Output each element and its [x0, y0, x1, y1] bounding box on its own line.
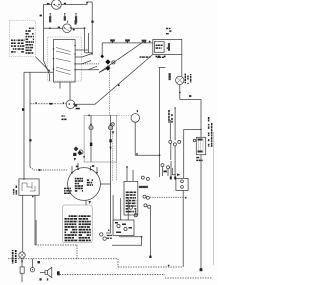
- dashed vertical center: [109, 66, 111, 115]
- wire timer contact out 4: [75, 69, 99, 71]
- wire down from node: [112, 237, 142, 246]
- wire below cycling thermostat: [134, 122, 136, 155]
- label 1M: [64, 17, 66, 19]
- start switch terminal 1: [181, 180, 184, 183]
- wires below terminals: [163, 143, 176, 180]
- wire from switch cluster down: [149, 208, 151, 257]
- node near rings: [108, 230, 110, 232]
- wires center-left pair: [113, 126, 117, 181]
- solenoid L2 stub: [110, 115, 112, 125]
- main bus top: [102, 42, 153, 44]
- connector ring 2: [103, 237, 106, 240]
- label under speaker: [40, 279, 42, 281]
- node in right box: [167, 47, 169, 49]
- node at diagonal joint: [48, 70, 50, 72]
- dashed bottom line D: [57, 273, 165, 275]
- speaker symbol: [45, 267, 52, 277]
- label 5M: [49, 17, 51, 19]
- wire hi-limit to start box: [172, 168, 176, 175]
- label door switch: [12, 250, 17, 264]
- label in fuse box: [156, 45, 163, 49]
- label near regulating thermostat: [164, 171, 167, 173]
- dashed bottom line A: [35, 244, 77, 246]
- label under right box: [156, 56, 166, 58]
- wire door box right down: [34, 195, 36, 245]
- wire right horizontal: [180, 94, 201, 100]
- buzzer circle: [30, 268, 34, 272]
- node on bus left: [49, 27, 51, 29]
- switch lever 2: [82, 61, 91, 64]
- label 6M: [76, 108, 80, 110]
- tiny text near rings: [107, 235, 112, 239]
- motor terminal 2: [77, 168, 79, 170]
- stub label blobs: [76, 166, 78, 168]
- wire to speaker: [40, 272, 45, 274]
- junction diamond 2: [105, 65, 110, 70]
- solenoid L2: [108, 126, 112, 130]
- label FAN: [169, 74, 171, 76]
- node on wire: [35, 102, 37, 104]
- wire left horizontal bus: [24, 71, 54, 73]
- junction mark on drop: [100, 55, 104, 59]
- wire label blob on left vertical: [40, 15, 42, 17]
- thermostat terminal circle 3: [178, 140, 181, 143]
- label blob on wire: [49, 103, 52, 105]
- switch lever 1: [82, 54, 92, 58]
- figure label blob: [57, 271, 60, 275]
- motor switch circle f: [148, 205, 151, 208]
- dark cluster component 3: [73, 153, 76, 156]
- connector ring 1: [100, 233, 103, 236]
- arrow below: [112, 131, 115, 134]
- node timer box right 3: [74, 63, 76, 65]
- bottom blob on heater wire: [200, 268, 203, 271]
- wire fan to node: [179, 85, 181, 95]
- cycling thermostat circle: [131, 114, 140, 123]
- wire below start box: [182, 191, 184, 268]
- wire right vertical drop: [200, 100, 202, 138]
- wire motor bottom: [85, 200, 87, 205]
- motor internal text: [75, 178, 93, 192]
- wire to SW1 left: [44, 3, 52, 5]
- dashed wire to motor: [30, 167, 68, 170]
- switch contact row 1: [56, 48, 71, 55]
- wire resistor down: [21, 273, 23, 282]
- text above right box: [166, 28, 172, 35]
- door switch circle: [19, 252, 25, 258]
- node timer inner mid: [53, 58, 55, 60]
- inner fuse box: [154, 42, 164, 53]
- switch contact row 3: [56, 67, 71, 75]
- wire console horizontal: [135, 154, 159, 156]
- start switch circle SW1: [52, 0, 62, 9]
- regulating thermostat circle 2: [167, 166, 170, 169]
- node bus 2: [127, 41, 129, 43]
- wire timer contact out 3: [75, 63, 82, 65]
- tick above SW2: [67, 21, 69, 23]
- timer switch inner box: [54, 40, 76, 83]
- small switch circle in console: [79, 150, 83, 154]
- node before circle: [63, 102, 65, 104]
- circled terminal: [112, 61, 115, 64]
- dashed bottom line B: [8, 258, 118, 260]
- node on bus right: [84, 27, 86, 29]
- node console left: [136, 153, 138, 155]
- dashed wire mid: [78, 63, 99, 65]
- hi-limit column wires: [170, 108, 175, 140]
- wire timer contact out 2: [75, 56, 82, 58]
- node on console top: [88, 114, 90, 116]
- legend box (wiring code): [9, 21, 35, 57]
- switch lever 3: [88, 66, 97, 70]
- junction diamond 1: [105, 59, 110, 64]
- motor stub wires: [72, 163, 97, 173]
- terminal block box (right top): [153, 39, 182, 54]
- thermostat terminal circle 1: [169, 140, 172, 143]
- stub below switch box: [59, 82, 61, 89]
- label blob on right vertical: [91, 21, 93, 23]
- motor switch circle b: [146, 177, 149, 180]
- solenoid L1: [89, 126, 93, 130]
- centrifugal switch circle: [66, 100, 75, 109]
- arrow on L2 wire: [109, 147, 111, 150]
- resistor below door switch: [20, 267, 24, 273]
- arrow below door circle: [21, 261, 23, 264]
- node at relay tap: [200, 129, 202, 131]
- terminal strip text: [126, 192, 137, 213]
- wire joining pair: [85, 52, 93, 54]
- node on buzzer wire: [38, 261, 40, 263]
- diagonal wire D1 to heater box: [99, 41, 145, 73]
- rings inside junction box: [117, 224, 120, 227]
- timer switch outer box: [48, 37, 82, 81]
- dashed wire to start area: [150, 196, 183, 198]
- node on left vertical 2: [29, 139, 31, 141]
- dashed top extension to thermostat: [116, 115, 131, 117]
- wire motor right side: [100, 183, 110, 185]
- node timer box right 4: [74, 69, 76, 71]
- wire left vertical of top box: [43, 4, 45, 60]
- dashed step: [76, 245, 78, 259]
- wires into junction box: [113, 195, 136, 220]
- arrow below cluster: [74, 158, 76, 161]
- legend text column 1: [11, 40, 17, 53]
- dark cluster component 4: [75, 148, 77, 150]
- tick mark 5M: [49, 14, 51, 17]
- text top of console section: [140, 56, 151, 57]
- wire label blob bus left: [58, 27, 60, 29]
- label left of door box: [13, 186, 17, 195]
- wire below solenoid L1: [90, 130, 92, 162]
- wire down to start box: [183, 129, 185, 178]
- node bus 3: [144, 42, 146, 44]
- heater top terminal: [193, 139, 195, 141]
- heater internal: [198, 139, 203, 152]
- wire door switch to resistor: [21, 258, 23, 267]
- wire labels at column bottom: [170, 177, 172, 180]
- label left of motor: [64, 188, 72, 194]
- wire below junction box: [120, 236, 142, 237]
- small junction box bottom center: [113, 220, 134, 236]
- node above connector box: [89, 201, 91, 204]
- node on left vertical 1: [22, 108, 24, 111]
- hi-limit label: [168, 110, 173, 123]
- motor switch circle d: [146, 196, 149, 199]
- label blob on L1 wire: [90, 143, 92, 146]
- motor connector box: [63, 205, 92, 243]
- wire right vertical from top: [91, 2, 93, 53]
- regulating thermostat circle 1: [161, 164, 164, 167]
- wire from box right corner down: [181, 55, 183, 77]
- far right vertical wire: [213, 132, 215, 265]
- circled terminal left-center: [111, 123, 114, 126]
- console box: [84, 115, 116, 162]
- wire buzzer up: [32, 259, 34, 268]
- connector box text block: [65, 215, 91, 241]
- label below heater: [196, 157, 202, 161]
- label on right horizontal: [189, 95, 191, 97]
- tick mark 2M: [75, 14, 77, 17]
- inner panel corner wire: [159, 68, 166, 156]
- node under fan: [179, 92, 181, 94]
- diagonal wire D2 to cord box: [75, 55, 153, 105]
- node below start box: [185, 197, 187, 199]
- wire timer contact out 1: [75, 49, 88, 51]
- vertical label in right box: [168, 44, 169, 46]
- wire left vertical 1: [23, 72, 25, 179]
- drive motor circle: [68, 168, 101, 201]
- label blob on L2 wire: [109, 139, 111, 142]
- label 2M right: [75, 21, 76, 23]
- motor switch circle e: [144, 204, 147, 207]
- dark cluster component 1: [74, 147, 79, 152]
- ring above box: [129, 206, 132, 209]
- node timer box right 2: [74, 53, 76, 55]
- door switch internals: [22, 182, 35, 191]
- motor switch circle c: [143, 195, 146, 198]
- wire door box to door switch: [22, 195, 24, 251]
- node above strip: [126, 166, 128, 168]
- thermostat terminal circle 2: [173, 143, 176, 146]
- wire relay horizontal: [184, 128, 201, 130]
- node door box bottom: [32, 196, 34, 198]
- terminal strip tall box: [124, 181, 138, 215]
- start switch circle SW2: [63, 24, 72, 33]
- node bus 1: [112, 41, 114, 43]
- push to start box: [176, 178, 188, 190]
- label L1: [111, 40, 114, 41]
- node at 87,2: [86, 2, 88, 4]
- label above cycling thermostat: [136, 110, 139, 112]
- wire label blob left: [47, 3, 49, 5]
- arrow node: [99, 68, 108, 72]
- wire below solenoid L2: [110, 130, 112, 162]
- rotated text right edge: [208, 117, 213, 147]
- wire console bottom to connectors: [106, 162, 111, 233]
- wire into centrifugal switch: [30, 103, 66, 105]
- wire from switch box down: [69, 82, 71, 100]
- arrow on dashed wire: [39, 169, 43, 172]
- wire label blob bus right: [73, 29, 75, 31]
- wire second bus: [44, 27, 85, 29]
- node timer box left 1: [53, 48, 55, 50]
- wire left vertical 2: [29, 72, 31, 167]
- node lever 1: [91, 53, 93, 55]
- label motor switch: [139, 186, 142, 188]
- motor terminal 4: [96, 172, 98, 174]
- wire console drop: [159, 155, 161, 177]
- door switch box: [19, 179, 39, 195]
- node console right: [159, 154, 161, 156]
- motor terminal 3: [90, 169, 92, 171]
- motor switch circle a: [141, 176, 144, 179]
- label 2M: [75, 17, 77, 19]
- tick mark 1M: [64, 14, 66, 17]
- solenoid L1 stub: [90, 115, 92, 125]
- node right of junction: [141, 236, 143, 238]
- node on D2: [118, 84, 120, 86]
- legend text column 2: [18, 28, 35, 54]
- label blob at wire end: [149, 256, 151, 258]
- wire label blob right: [64, 3, 66, 5]
- dashed bottom line E: [165, 277, 212, 279]
- solenoid L1 terminal: [90, 123, 92, 125]
- wires above terminal strip: [127, 167, 133, 181]
- arrow on wire: [177, 173, 180, 176]
- label water valve: [185, 74, 192, 85]
- motor terminal 1: [71, 172, 73, 174]
- node timer box left 2: [53, 68, 55, 70]
- text label right top: [157, 57, 164, 58]
- node on bottom-right dashed: [168, 265, 170, 267]
- wire from SW1 right: [61, 2, 92, 4]
- label L2: [126, 40, 128, 41]
- switch contact row 2: [56, 59, 71, 62]
- dashed bottom line C: [118, 266, 183, 268]
- node at door box top: [23, 178, 25, 180]
- wire right pair verticals: [85, 28, 89, 53]
- wire heater bottom long: [200, 155, 202, 270]
- node below cluster: [83, 156, 85, 158]
- dark cluster component 2: [78, 151, 83, 156]
- node timer box right 1: [74, 45, 76, 47]
- wire from legend to left bus: [36, 57, 50, 71]
- wire console left vertical (from top area): [35, 220, 37, 245]
- label L3: [142, 40, 144, 41]
- node top of hi-limit wire: [174, 107, 176, 109]
- wire bend lower-left of top box: [44, 61, 50, 82]
- heating element box: [196, 137, 205, 154]
- start switch terminal 2: [181, 186, 184, 189]
- fan motor circle: [176, 76, 184, 84]
- solenoid L2 terminal: [110, 123, 112, 125]
- dashed step 2: [117, 259, 119, 267]
- wire bus drop: [101, 43, 103, 58]
- label 3M 2M left of channel: [62, 115, 67, 120]
